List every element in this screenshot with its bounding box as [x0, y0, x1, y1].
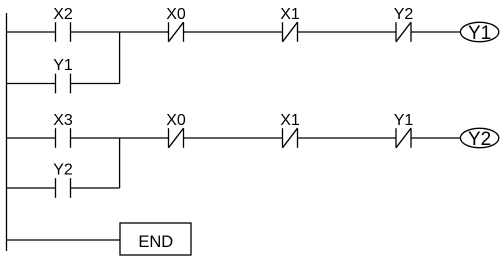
svg-text:X2: X2: [53, 6, 73, 23]
svg-text:X1: X1: [280, 6, 300, 23]
svg-text:X3: X3: [53, 112, 73, 129]
svg-text:Y1: Y1: [468, 23, 491, 44]
svg-text:Y2: Y2: [53, 161, 73, 178]
svg-text:Y1: Y1: [394, 112, 414, 129]
svg-text:Y1: Y1: [53, 57, 73, 74]
svg-text:Y2: Y2: [468, 129, 491, 150]
svg-text:X1: X1: [280, 112, 300, 129]
svg-text:Y2: Y2: [394, 6, 414, 23]
svg-text:X0: X0: [166, 112, 186, 129]
svg-text:X0: X0: [166, 6, 186, 23]
svg-text:END: END: [138, 233, 173, 251]
